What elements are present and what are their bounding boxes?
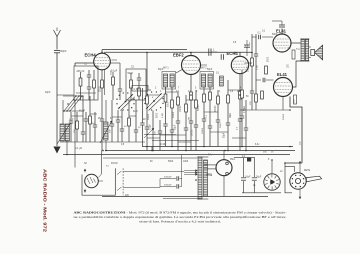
svg-text:5000: 5000 bbox=[168, 101, 170, 107]
svg-text:M.F.1: M.F.1 bbox=[163, 68, 169, 70]
svg-text:M.F.2: M.F.2 bbox=[201, 68, 207, 70]
svg-text:2M: 2M bbox=[189, 117, 191, 120]
svg-text:1000: 1000 bbox=[183, 161, 189, 163]
svg-text:EBF2: EBF2 bbox=[173, 53, 184, 58]
svg-text:C.S.63: C.S.63 bbox=[134, 89, 142, 91]
svg-text:30000: 30000 bbox=[148, 113, 150, 120]
svg-text:41,3: 41,3 bbox=[133, 111, 138, 113]
svg-text:T.U.: T.U. bbox=[296, 49, 300, 51]
svg-text:50000: 50000 bbox=[173, 111, 175, 118]
svg-text:25μF: 25μF bbox=[175, 124, 177, 130]
svg-text:16μF: 16μF bbox=[256, 177, 262, 179]
svg-text:25000: 25000 bbox=[283, 113, 285, 120]
svg-text:16μF: 16μF bbox=[245, 177, 251, 179]
svg-text:5000pF: 5000pF bbox=[164, 185, 172, 187]
svg-text:0,1 μF: 0,1 μF bbox=[75, 147, 83, 150]
svg-text:5000: 5000 bbox=[272, 34, 278, 36]
svg-text:5000: 5000 bbox=[168, 161, 174, 163]
svg-text:FONO: FONO bbox=[111, 163, 118, 165]
svg-text:500pF: 500pF bbox=[60, 50, 68, 53]
svg-text:50pF: 50pF bbox=[128, 72, 134, 75]
svg-text:T.A.: T.A. bbox=[208, 154, 212, 157]
svg-text:250Ω: 250Ω bbox=[100, 86, 102, 92]
svg-text:ABC RADIO - Mod. 972: ABC RADIO - Mod. 972 bbox=[43, 169, 48, 233]
svg-text:5000: 5000 bbox=[157, 112, 159, 118]
svg-text:10000: 10000 bbox=[180, 105, 182, 112]
svg-text:40 pF: 40 pF bbox=[79, 110, 86, 113]
svg-text:0,5M: 0,5M bbox=[257, 65, 259, 70]
svg-text:ne a permeabilità variabile a: ne a permeabilità variabile a doppia esp… bbox=[74, 215, 287, 219]
svg-text:40pF: 40pF bbox=[45, 91, 51, 94]
svg-text:50pF: 50pF bbox=[207, 69, 213, 71]
svg-text:0,5MΩ: 0,5MΩ bbox=[244, 106, 246, 113]
svg-text:5000: 5000 bbox=[220, 122, 222, 128]
svg-text:ECH4: ECH4 bbox=[85, 53, 97, 58]
svg-text:EL41: EL41 bbox=[277, 72, 288, 77]
svg-text:EL41: EL41 bbox=[276, 29, 287, 34]
svg-text:25000: 25000 bbox=[248, 65, 250, 72]
svg-text:5000pF: 5000pF bbox=[164, 177, 172, 179]
svg-text:30000: 30000 bbox=[192, 129, 194, 136]
svg-text:5000: 5000 bbox=[268, 56, 270, 62]
svg-text:350v: 350v bbox=[230, 159, 236, 161]
svg-text:0,5M: 0,5M bbox=[162, 113, 164, 118]
svg-text:50pF: 50pF bbox=[224, 132, 226, 138]
svg-text:5Y3: 5Y3 bbox=[206, 173, 212, 177]
svg-text:2×16: 2×16 bbox=[160, 143, 166, 146]
svg-text:20000: 20000 bbox=[215, 105, 217, 112]
svg-text:1500: 1500 bbox=[111, 69, 113, 75]
svg-text:50000: 50000 bbox=[198, 104, 200, 111]
svg-text:0,1μF: 0,1μF bbox=[150, 123, 152, 130]
svg-text:ECH4: ECH4 bbox=[227, 51, 239, 56]
svg-text:RETE: RETE bbox=[304, 170, 311, 172]
svg-text:10000: 10000 bbox=[202, 127, 204, 134]
svg-text:1MΩ: 1MΩ bbox=[230, 113, 232, 118]
